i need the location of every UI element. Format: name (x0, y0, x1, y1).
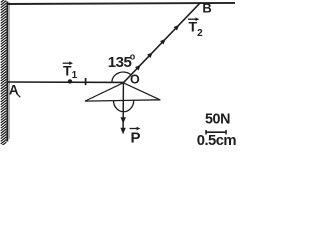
angle arc 135 deg at O (112, 72, 131, 82)
arrowhead down mid (121, 117, 126, 124)
svg-text:P: P (131, 129, 141, 145)
ceiling (7, 3, 235, 4)
svg-text:0.5cm: 0.5cm (197, 133, 237, 145)
wire O-B (string T2) (123, 2, 200, 83)
lamp shade triangle base (85, 100, 161, 101)
scale bar left tick (205, 130, 207, 135)
wall inner light line (8, 2, 10, 139)
svg-text:B: B (202, 1, 211, 16)
tick on A-O (85, 78, 87, 85)
lamp bulb semicircle (114, 100, 134, 112)
lamp shade triangle right edge (123, 83, 160, 100)
vector bar over T1 (63, 62, 71, 64)
svg-text:50N: 50N (205, 112, 230, 128)
vector bar over T2 (188, 18, 197, 20)
scale bar right tick (225, 130, 227, 135)
wall line (6, 2, 8, 142)
arrowhead on O-B #2 (147, 51, 154, 58)
scale bar (206, 131, 227, 133)
svg-text:A: A (9, 83, 19, 98)
lamp shade triangle left edge (85, 83, 123, 101)
svg-text:O: O (130, 73, 140, 87)
vertical weight line P (122, 83, 124, 132)
wall hatching (1, 0, 7, 147)
wire A-O (string T1) (8, 81, 124, 83)
arrowhead on O-B #1 (135, 63, 142, 70)
vector bar over P (130, 128, 139, 130)
arrowhead down tip (120, 128, 125, 135)
node marker circle on A-O (68, 79, 72, 83)
tick after A (18, 95, 21, 98)
arrowhead on O-B #3 (160, 37, 167, 44)
arrowhead on O-B #4 (174, 23, 181, 30)
